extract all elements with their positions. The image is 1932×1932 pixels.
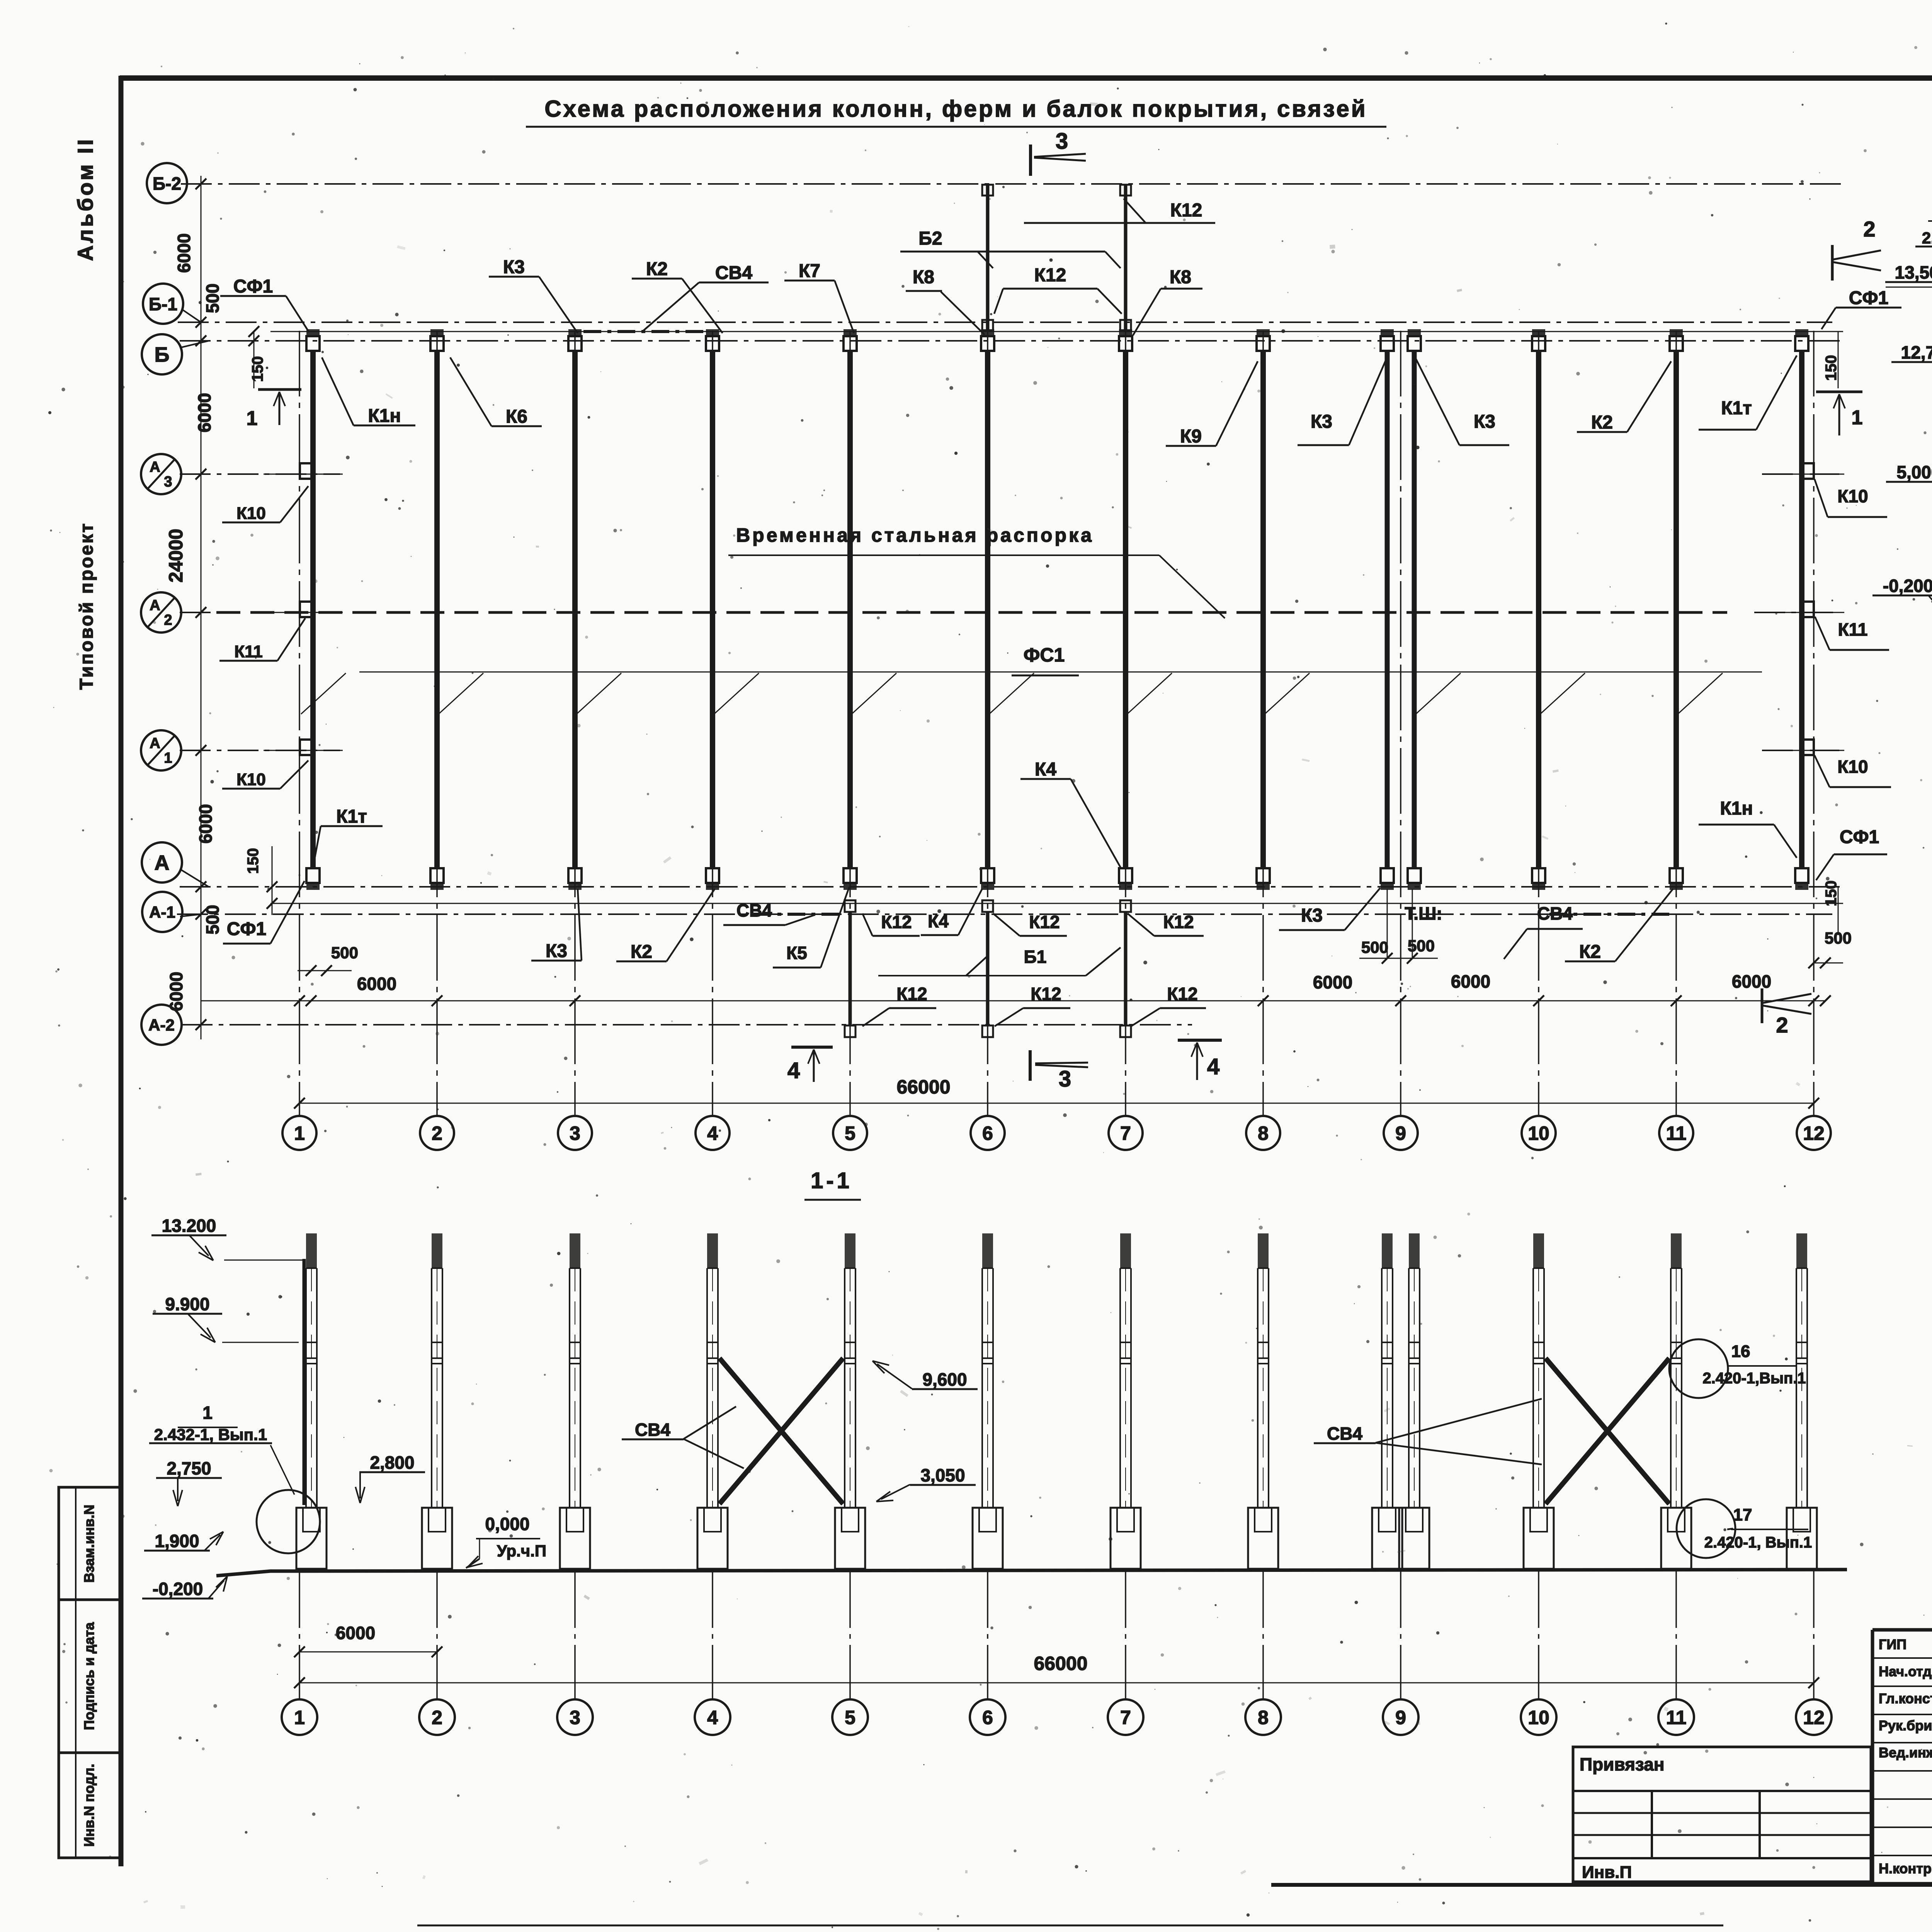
svg-text:12,700: 12,700 xyxy=(1901,342,1932,362)
svg-text:1: 1 xyxy=(294,1122,305,1144)
svg-text:150: 150 xyxy=(245,848,262,874)
svg-text:66000: 66000 xyxy=(1034,1653,1087,1674)
svg-text:-0,200: -0,200 xyxy=(153,1579,203,1599)
svg-text:16: 16 xyxy=(1731,1342,1750,1361)
svg-text:2.460-2,вып.1: 2.460-2,вып.1 xyxy=(1922,229,1932,247)
svg-text:СВ4: СВ4 xyxy=(1537,903,1573,923)
svg-text:500: 500 xyxy=(1361,938,1388,956)
svg-text:К7: К7 xyxy=(799,261,820,281)
svg-text:Схема расположения колонн,: Схема расположения колонн, ферм и балок … xyxy=(544,96,1367,122)
svg-text:А: А xyxy=(150,735,160,752)
svg-text:66000: 66000 xyxy=(896,1076,950,1098)
svg-text:Рук.бриг.: Рук.бриг. xyxy=(1879,1718,1932,1733)
svg-text:500: 500 xyxy=(331,944,358,962)
svg-text:Б: Б xyxy=(155,343,170,366)
svg-text:4: 4 xyxy=(707,1707,718,1728)
svg-text:К11: К11 xyxy=(1838,619,1868,639)
svg-text:ГИП: ГИП xyxy=(1879,1636,1906,1652)
svg-text:ФС1: ФС1 xyxy=(1024,644,1065,666)
svg-text:6000: 6000 xyxy=(1451,971,1490,992)
svg-text:Подпись и дата: Подпись и дата xyxy=(81,1622,97,1730)
svg-text:К1т: К1т xyxy=(1721,398,1752,418)
svg-text:Гл.констр.: Гл.констр. xyxy=(1879,1690,1932,1706)
svg-text:500: 500 xyxy=(202,284,223,313)
svg-text:17: 17 xyxy=(1733,1505,1752,1524)
svg-text:К12: К12 xyxy=(1163,912,1194,932)
svg-text:150: 150 xyxy=(249,356,266,382)
svg-text:К1н: К1н xyxy=(1720,798,1753,819)
svg-text:500: 500 xyxy=(1408,937,1435,955)
svg-text:Нач.отд: Нач.отд xyxy=(1879,1663,1932,1679)
svg-text:Типовой проект: Типовой проект xyxy=(77,522,97,690)
svg-text:500: 500 xyxy=(1825,929,1852,947)
svg-text:Б-2: Б-2 xyxy=(153,173,181,194)
svg-text:0,000: 0,000 xyxy=(485,1514,529,1534)
svg-text:К8: К8 xyxy=(1170,267,1191,287)
svg-text:К9: К9 xyxy=(1180,426,1202,447)
svg-text:СФ1: СФ1 xyxy=(233,276,273,297)
svg-text:1-1: 1-1 xyxy=(811,1168,852,1193)
svg-text:Б-1: Б-1 xyxy=(149,294,177,314)
svg-text:К12: К12 xyxy=(1170,200,1202,221)
svg-text:К12: К12 xyxy=(1029,912,1060,932)
svg-text:Инв.N подл.: Инв.N подл. xyxy=(81,1764,97,1847)
svg-text:К1н: К1н xyxy=(368,406,401,426)
svg-text:150: 150 xyxy=(1823,881,1840,906)
svg-text:6000: 6000 xyxy=(357,974,396,994)
svg-text:6000: 6000 xyxy=(166,972,186,1011)
svg-text:24000: 24000 xyxy=(165,529,187,582)
svg-text:2.432-1, Вып.1: 2.432-1, Вып.1 xyxy=(154,1425,267,1444)
svg-text:6000: 6000 xyxy=(1313,972,1352,992)
svg-text:К2: К2 xyxy=(1591,412,1613,433)
svg-text:Т.Ш:: Т.Ш: xyxy=(1405,903,1442,923)
svg-text:2.420-1,Вып.1: 2.420-1,Вып.1 xyxy=(1702,1370,1806,1387)
svg-text:11: 11 xyxy=(1666,1707,1687,1728)
svg-text:1: 1 xyxy=(202,1403,213,1423)
svg-text:5,000: 5,000 xyxy=(1896,462,1932,482)
svg-text:5: 5 xyxy=(845,1122,855,1144)
svg-text:К4: К4 xyxy=(928,911,949,931)
svg-text:А: А xyxy=(155,851,170,874)
svg-text:К10: К10 xyxy=(1837,486,1868,506)
svg-text:4: 4 xyxy=(707,1122,718,1144)
svg-text:3: 3 xyxy=(1056,129,1068,154)
svg-text:СФ1: СФ1 xyxy=(227,919,266,939)
svg-text:К3: К3 xyxy=(1311,412,1332,432)
svg-text:2: 2 xyxy=(432,1707,442,1728)
svg-text:К3: К3 xyxy=(546,941,567,961)
svg-text:6: 6 xyxy=(982,1707,993,1728)
svg-text:К3: К3 xyxy=(1474,412,1495,432)
svg-text:Б2: Б2 xyxy=(918,228,942,249)
svg-text:Временная стальная распорка: Временная стальная распорка xyxy=(736,524,1094,546)
svg-text:К4: К4 xyxy=(1035,759,1056,780)
svg-text:СВ4: СВ4 xyxy=(1327,1423,1362,1444)
svg-text:Привязан: Привязан xyxy=(1580,1754,1665,1774)
svg-text:К12: К12 xyxy=(1031,984,1061,1004)
svg-text:7: 7 xyxy=(1120,1122,1131,1144)
svg-text:6: 6 xyxy=(982,1122,993,1144)
svg-text:2: 2 xyxy=(1863,217,1875,241)
svg-text:150: 150 xyxy=(1823,355,1840,381)
svg-text:Альбом II: Альбом II xyxy=(73,137,97,261)
svg-text:К12: К12 xyxy=(1167,984,1197,1004)
svg-text:СВ4: СВ4 xyxy=(736,900,772,920)
svg-text:2,750: 2,750 xyxy=(167,1458,211,1478)
svg-text:К10: К10 xyxy=(1837,757,1868,777)
svg-text:8: 8 xyxy=(1258,1707,1269,1728)
svg-text:К3: К3 xyxy=(1301,905,1323,926)
svg-text:Вед.инж: Вед.инж xyxy=(1879,1745,1932,1760)
svg-text:К12: К12 xyxy=(896,984,927,1004)
svg-text:6000: 6000 xyxy=(174,233,194,273)
svg-text:К12: К12 xyxy=(1034,265,1066,286)
svg-text:К12: К12 xyxy=(881,912,912,932)
svg-text:СФ1: СФ1 xyxy=(1849,288,1888,308)
svg-text:А-1: А-1 xyxy=(149,903,175,921)
svg-text:К2: К2 xyxy=(646,259,668,279)
svg-text:Н.контр: Н.контр xyxy=(1879,1861,1932,1876)
svg-text:3: 3 xyxy=(164,474,172,490)
svg-text:3: 3 xyxy=(570,1707,580,1728)
svg-text:К2: К2 xyxy=(1579,942,1601,962)
svg-text:2.420-1, Вып.1: 2.420-1, Вып.1 xyxy=(1704,1534,1812,1551)
svg-text:13,500: 13,500 xyxy=(1895,262,1932,282)
svg-text:А-2: А-2 xyxy=(148,1016,175,1034)
svg-text:12: 12 xyxy=(1803,1707,1825,1728)
svg-text:3: 3 xyxy=(570,1122,580,1144)
svg-text:3,050: 3,050 xyxy=(920,1465,965,1485)
svg-text:К8: К8 xyxy=(913,267,934,287)
svg-text:13.200: 13.200 xyxy=(162,1216,216,1236)
svg-text:9,600: 9,600 xyxy=(922,1369,967,1389)
svg-text:1: 1 xyxy=(247,407,258,430)
svg-text:11: 11 xyxy=(1666,1122,1687,1144)
svg-text:9.900: 9.900 xyxy=(165,1294,209,1314)
svg-text:6000: 6000 xyxy=(336,1623,375,1643)
svg-text:6000: 6000 xyxy=(194,393,214,432)
svg-text:2: 2 xyxy=(432,1122,442,1144)
svg-text:1: 1 xyxy=(1852,406,1863,429)
svg-text:9: 9 xyxy=(1395,1707,1406,1728)
svg-text:2,800: 2,800 xyxy=(370,1452,414,1473)
svg-text:4: 4 xyxy=(1207,1054,1219,1079)
svg-text:СФ1: СФ1 xyxy=(1840,827,1879,847)
svg-text:К3: К3 xyxy=(503,257,525,277)
svg-text:2: 2 xyxy=(1776,1013,1788,1037)
svg-text:СВ4: СВ4 xyxy=(715,263,752,283)
svg-text:6000: 6000 xyxy=(1732,971,1771,992)
svg-text:4: 4 xyxy=(787,1058,800,1083)
svg-text:К6: К6 xyxy=(506,406,527,427)
svg-text:СВ4: СВ4 xyxy=(635,1420,670,1440)
svg-text:Б1: Б1 xyxy=(1024,947,1047,967)
svg-text:К10: К10 xyxy=(236,504,266,523)
svg-text:А: А xyxy=(150,459,160,475)
svg-text:6000: 6000 xyxy=(196,804,216,844)
svg-text:5: 5 xyxy=(845,1707,855,1728)
svg-text:К1т: К1т xyxy=(336,806,367,827)
svg-text:8: 8 xyxy=(1258,1122,1269,1144)
svg-text:3: 3 xyxy=(1059,1066,1071,1092)
svg-text:Взам.инв.N: Взам.инв.N xyxy=(81,1505,97,1583)
svg-text:1: 1 xyxy=(164,750,172,766)
svg-text:10: 10 xyxy=(1528,1707,1549,1728)
svg-text:500: 500 xyxy=(202,905,223,935)
svg-text:1: 1 xyxy=(294,1707,305,1728)
svg-text:А: А xyxy=(150,597,160,614)
svg-text:К2: К2 xyxy=(631,942,652,962)
svg-text:10: 10 xyxy=(1528,1122,1549,1144)
svg-text:Инв.П: Инв.П xyxy=(1582,1863,1632,1882)
svg-text:К5: К5 xyxy=(786,943,807,963)
svg-text:1,900: 1,900 xyxy=(155,1531,199,1551)
svg-text:-0,200: -0,200 xyxy=(1883,576,1932,596)
svg-text:К11: К11 xyxy=(234,642,262,661)
svg-text:2: 2 xyxy=(164,612,172,628)
svg-text:9: 9 xyxy=(1395,1122,1406,1144)
svg-text:7: 7 xyxy=(1120,1707,1131,1728)
svg-text:К10: К10 xyxy=(236,770,266,789)
svg-text:12: 12 xyxy=(1803,1122,1825,1144)
svg-text:Ур.ч.П: Ур.ч.П xyxy=(497,1542,546,1560)
